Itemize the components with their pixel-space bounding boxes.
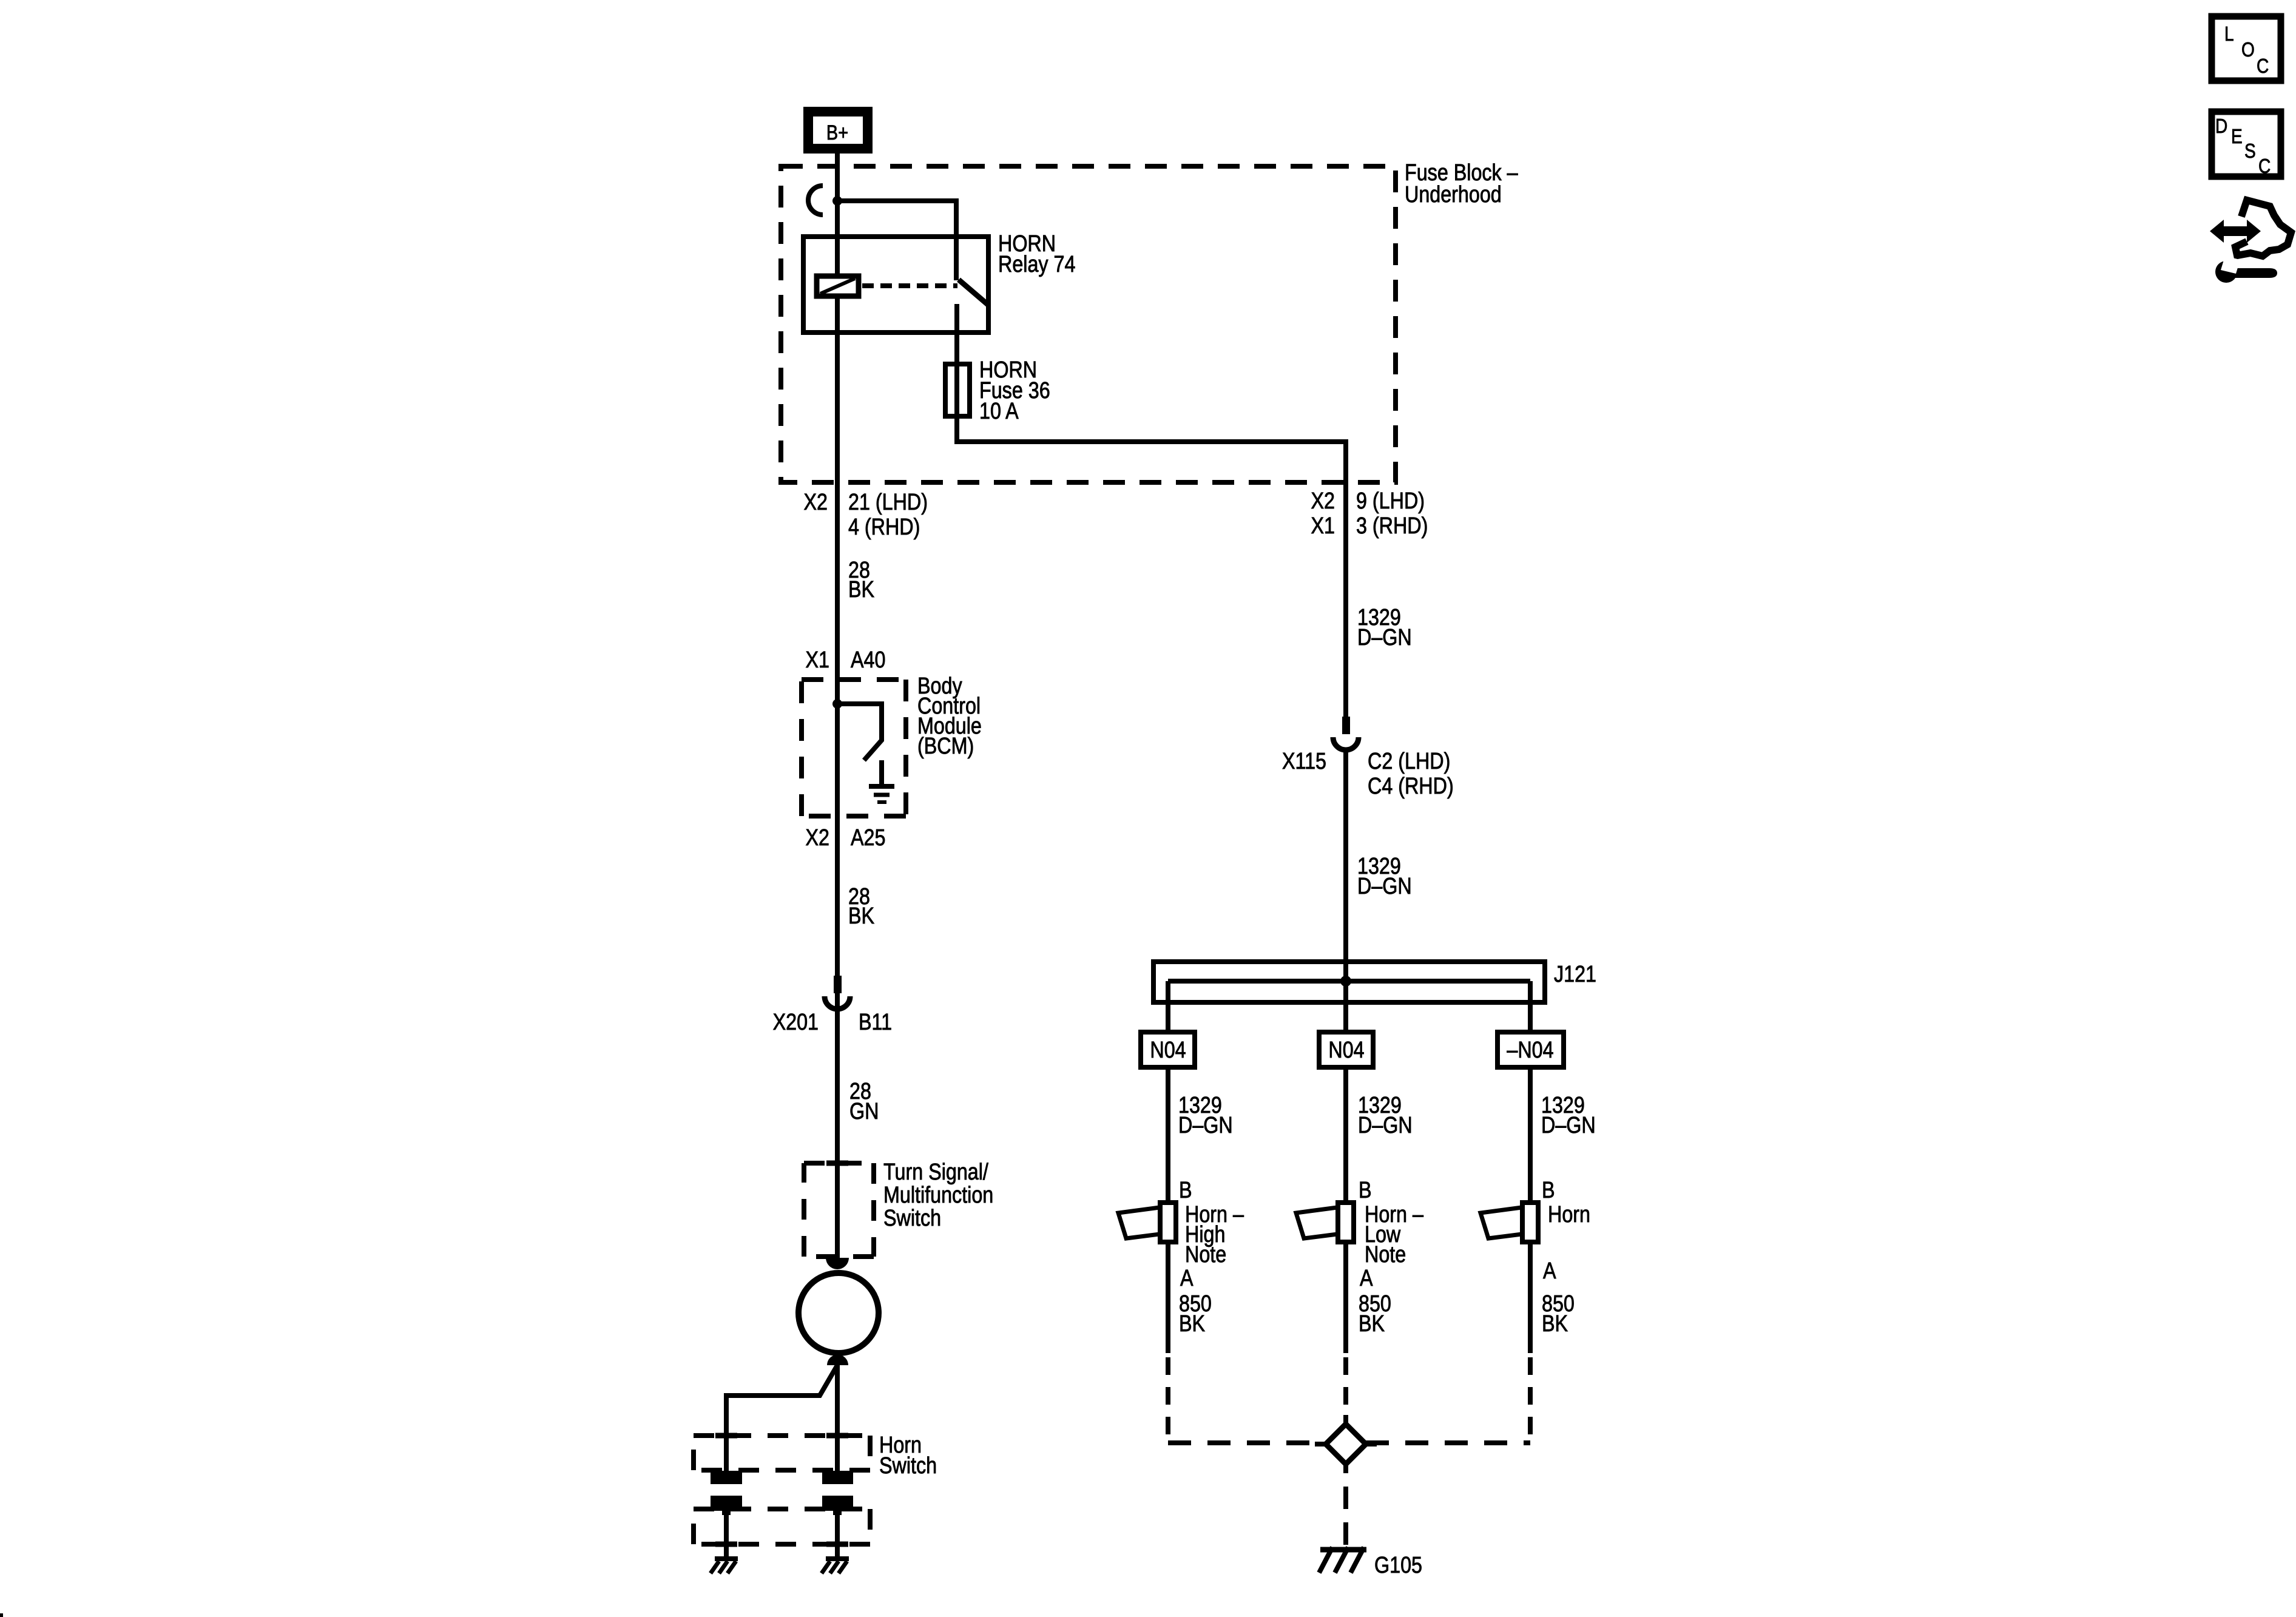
svg-text:D–GN: D–GN bbox=[1357, 874, 1412, 899]
pin label X2 A25 bbox=[806, 825, 886, 851]
horn switch dashed box lower bbox=[694, 1509, 870, 1544]
svg-text:4 (RHD): 4 (RHD) bbox=[848, 515, 920, 540]
BCM label bbox=[917, 673, 982, 759]
LOC reference box bbox=[2212, 16, 2281, 81]
chassis ground right bbox=[822, 1559, 849, 1573]
svg-text:C4 (RHD): C4 (RHD) bbox=[1368, 774, 1454, 799]
svg-text:Turn Signal/: Turn Signal/ bbox=[883, 1160, 988, 1185]
turn signal switch label bbox=[883, 1160, 993, 1231]
svg-text:O: O bbox=[2241, 39, 2255, 61]
wires: pads to chassis grounds bbox=[715, 1511, 848, 1559]
wire labels 850 BK (three columns) bbox=[1179, 1291, 1575, 1337]
svg-text:D–GN: D–GN bbox=[1357, 625, 1412, 650]
pin labels A bbox=[1180, 1258, 1556, 1291]
wires: J121 to N04 connectors bbox=[1168, 981, 1530, 1032]
horn switch contact pads row 1 bbox=[711, 1471, 853, 1484]
connector label X201 B11 bbox=[773, 1010, 892, 1035]
fuse block underhood dashed box bbox=[781, 166, 1396, 482]
svg-text:BK: BK bbox=[1179, 1311, 1206, 1337]
wire labels 1329 D-GN (three columns) bbox=[1178, 1093, 1596, 1138]
svg-text:X115: X115 bbox=[1282, 749, 1326, 774]
svg-text:X1: X1 bbox=[1311, 513, 1335, 539]
horn switch label bbox=[879, 1433, 937, 1479]
relay switch blade bbox=[959, 280, 988, 305]
fuse block label bbox=[1405, 160, 1518, 208]
svg-text:BK: BK bbox=[1359, 1311, 1385, 1337]
pin label X2 9 LHD / X1 3 RHD (right exit) bbox=[1311, 488, 1428, 539]
node: J121 junction bbox=[1340, 976, 1351, 987]
wires: N04 to horns bbox=[1168, 1067, 1530, 1203]
svg-text:B11: B11 bbox=[859, 1010, 892, 1035]
page corner mark bbox=[0, 1613, 3, 1617]
svg-text:N04: N04 bbox=[1328, 1038, 1364, 1063]
dashed ground net wires bbox=[1168, 1357, 1530, 1443]
svg-text:X2: X2 bbox=[1311, 488, 1335, 514]
horn high note symbol bbox=[1118, 1203, 1176, 1242]
svg-text:X2: X2 bbox=[804, 490, 828, 515]
BCM internal switch bbox=[837, 704, 882, 760]
connector label X115 C2/C4 bbox=[1282, 749, 1454, 799]
horn switch top contact bbox=[826, 1258, 849, 1269]
connector service icon: wrench bbox=[2215, 256, 2277, 283]
svg-text:D–GN: D–GN bbox=[1541, 1113, 1596, 1138]
connector service icon: connector outline bbox=[2235, 200, 2291, 256]
wire label 1329 D-GN (upper right) bbox=[1357, 605, 1412, 650]
svg-text:Multifunction: Multifunction bbox=[883, 1183, 993, 1208]
relay label HORN Relay 74 bbox=[998, 231, 1075, 277]
svg-text:S: S bbox=[2244, 140, 2256, 163]
horn symbol (right) bbox=[1481, 1203, 1538, 1242]
svg-text:D–GN: D–GN bbox=[1358, 1113, 1413, 1138]
wire label 28 BK (upper) bbox=[848, 558, 875, 603]
svg-text:GN: GN bbox=[849, 1099, 879, 1124]
svg-text:3 (RHD): 3 (RHD) bbox=[1356, 513, 1428, 539]
svg-text:A40: A40 bbox=[851, 647, 885, 673]
pin labels B bbox=[1179, 1178, 1555, 1203]
wire label 28 BK (lower) bbox=[848, 884, 875, 929]
svg-text:A25: A25 bbox=[851, 825, 885, 851]
svg-text:Relay 74: Relay 74 bbox=[998, 252, 1075, 277]
BCM internal ground bbox=[869, 760, 894, 802]
wire: horn switch to contact pads bbox=[726, 1364, 837, 1471]
svg-text:BK: BK bbox=[1542, 1311, 1568, 1337]
DESC reference box bbox=[2212, 112, 2281, 178]
svg-text:21 (LHD): 21 (LHD) bbox=[848, 490, 928, 515]
svg-text:L: L bbox=[2224, 23, 2234, 46]
pin label X1 A40 bbox=[806, 647, 886, 673]
node: B+ junction bbox=[832, 196, 842, 206]
svg-text:(BCM): (BCM) bbox=[917, 734, 974, 759]
svg-text:Underhood: Underhood bbox=[1405, 182, 1502, 208]
wire label 1329 D-GN (mid right) bbox=[1357, 854, 1412, 899]
svg-text:A: A bbox=[1180, 1266, 1194, 1291]
svg-text:C: C bbox=[2257, 55, 2269, 78]
svg-text:C: C bbox=[2258, 155, 2271, 178]
svg-text:Note: Note bbox=[1185, 1242, 1226, 1268]
svg-text:N04: N04 bbox=[1150, 1038, 1186, 1063]
connector -N04 (right) bbox=[1497, 1032, 1564, 1067]
relay U74 box bbox=[803, 237, 988, 333]
svg-text:B+: B+ bbox=[826, 121, 848, 144]
wire: junction to relay switch contact bbox=[837, 201, 956, 280]
svg-text:A: A bbox=[1360, 1266, 1373, 1291]
splice pack J121 bbox=[1153, 962, 1545, 1002]
svg-text:9 (LHD): 9 (LHD) bbox=[1356, 488, 1425, 514]
connector N04 (center) bbox=[1319, 1032, 1373, 1067]
svg-text:B: B bbox=[1542, 1178, 1555, 1203]
relay coil bbox=[817, 276, 859, 296]
chassis ground left bbox=[711, 1559, 738, 1573]
wire: relay switch to fuse and right exit bbox=[957, 304, 1346, 717]
turn signal multifunction switch dashed box bbox=[804, 1163, 874, 1257]
BCM dashed box bbox=[802, 680, 906, 816]
feed hook symbol bbox=[808, 186, 823, 215]
connector X201 bbox=[825, 976, 850, 1009]
wire: X115 to splice J121 bbox=[1343, 749, 1348, 981]
svg-text:X1: X1 bbox=[806, 647, 829, 673]
svg-text:10 A: 10 A bbox=[979, 399, 1019, 424]
fuse F36 bbox=[945, 364, 970, 416]
dashed wire: diamond to G105 bbox=[1343, 1487, 1348, 1547]
svg-text:A: A bbox=[1543, 1258, 1556, 1284]
connector X115 bbox=[1333, 717, 1359, 750]
svg-text:E: E bbox=[2231, 126, 2243, 148]
svg-text:–N04: –N04 bbox=[1507, 1038, 1553, 1063]
horn low note symbol bbox=[1296, 1203, 1354, 1242]
wire ticks at horn switch box top bbox=[715, 1433, 848, 1439]
splice diamond bbox=[1315, 1415, 1377, 1473]
svg-text:D: D bbox=[2215, 115, 2227, 138]
relay coil to switch dashed link bbox=[862, 283, 957, 288]
horn low note label bbox=[1365, 1202, 1423, 1268]
horn high note label bbox=[1185, 1202, 1244, 1268]
pin label X2 21 LHD / 4 RHD (left exit) bbox=[804, 490, 928, 540]
svg-text:Switch: Switch bbox=[879, 1453, 937, 1479]
svg-text:Switch: Switch bbox=[883, 1206, 941, 1231]
svg-text:B: B bbox=[1179, 1178, 1192, 1203]
horn switch dashed box upper bbox=[694, 1436, 870, 1470]
connector service icon: double arrow bbox=[2210, 220, 2261, 243]
wire: B+ feed down through fuse block to horn switch bbox=[835, 154, 840, 1261]
fuse label HORN Fuse 36 10A bbox=[979, 357, 1050, 424]
svg-text:BK: BK bbox=[848, 577, 875, 603]
connector N04 (left) bbox=[1141, 1032, 1195, 1067]
svg-text:B: B bbox=[1359, 1178, 1372, 1203]
svg-text:G105: G105 bbox=[1374, 1553, 1422, 1578]
svg-text:C2 (LHD): C2 (LHD) bbox=[1368, 749, 1450, 774]
svg-text:D–GN: D–GN bbox=[1178, 1113, 1233, 1138]
horn switch circle bbox=[799, 1273, 879, 1353]
svg-text:J121: J121 bbox=[1554, 962, 1596, 987]
horn switch bottom contact bbox=[827, 1355, 848, 1366]
node: BCM junction bbox=[832, 699, 842, 709]
svg-text:Horn: Horn bbox=[1548, 1202, 1590, 1227]
ground G105 bbox=[1319, 1547, 1366, 1573]
svg-text:BK: BK bbox=[848, 903, 875, 929]
svg-text:Note: Note bbox=[1365, 1242, 1406, 1268]
wires: horns to ground net bbox=[1168, 1242, 1530, 1353]
B+ battery feed symbol bbox=[803, 107, 873, 154]
svg-text:X2: X2 bbox=[806, 825, 829, 851]
svg-text:X201: X201 bbox=[773, 1010, 819, 1035]
wire label 28 GN bbox=[849, 1079, 879, 1124]
horn switch contact pads row 2 bbox=[711, 1496, 853, 1515]
